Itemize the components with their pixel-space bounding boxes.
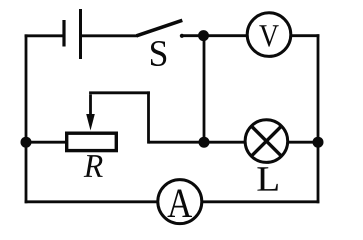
ammeter A1 circle (158, 180, 202, 224)
wire: bottom-left segment (corner to ammeter) (25, 200, 162, 203)
wire: right vertical side (317, 34, 320, 203)
rheostat R wiper arrow shaft (89, 94, 92, 120)
wire: node B to rheostat left terminal (26, 141, 67, 144)
lamp L1 cross stroke 2 (251, 126, 281, 156)
ammeter label A (168, 190, 193, 218)
voltmeter label V (259, 25, 278, 46)
battery B1 positive plate (long) (79, 9, 82, 59)
voltmeter V1 circle (247, 13, 291, 57)
wire: bottom-right segment (ammeter to right corner) (197, 200, 319, 203)
switch S label (151, 41, 166, 66)
lamp L1 circle (245, 120, 288, 163)
wire: voltmeter right terminal to top-right corner (286, 34, 319, 37)
wire: wiper corner to node C (149, 141, 205, 144)
lamp label L (257, 167, 277, 190)
wire: wiper run down vertical (147, 91, 150, 143)
battery B1 negative plate (short) (62, 20, 65, 47)
wire: middle vertical (node A down to node C) (203, 36, 206, 143)
wire: top-left segment (left corner to battery negative) (25, 34, 64, 37)
wire: switch contact to node A (181, 34, 204, 37)
wire: node A to voltmeter left terminal (204, 34, 252, 37)
switch S blade (open) (137, 20, 183, 36)
rheostat label R (84, 155, 103, 177)
wire: node C to lamp left terminal (204, 141, 250, 144)
rheostat R wiper arrowhead (86, 114, 95, 131)
node C junction dot (199, 137, 210, 148)
wire: left vertical side (25, 34, 28, 203)
switch S right contact nub (180, 34, 184, 38)
node B junction dot (21, 137, 32, 148)
wire: rheostat wiper horizontal run (89, 91, 150, 94)
wire: lamp right terminal to node D (284, 141, 318, 144)
wire: battery positive to switch pivot (81, 34, 138, 37)
rheostat R body (67, 133, 117, 150)
node A junction dot (198, 30, 209, 41)
lamp L1 cross stroke 1 (251, 126, 281, 156)
node D junction dot (313, 137, 324, 148)
